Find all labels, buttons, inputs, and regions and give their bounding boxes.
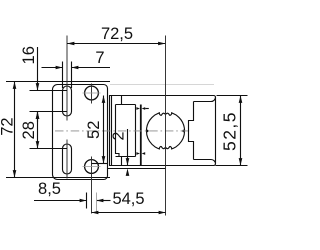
step lower — [116, 157, 136, 166]
svg-text:72: 72 — [0, 117, 17, 135]
dim 16 lower arrow — [36, 112, 40, 119]
ring dashed horizontal centerline — [55, 130, 190, 132]
lower hole — [85, 160, 99, 174]
dim 2 upper gap arrows — [136, 107, 140, 110]
dim 72,5 right arrow — [158, 42, 165, 46]
svg-text:52: 52 — [85, 121, 103, 139]
lower hole centerlines — [91, 157, 93, 214]
dim 54,5 right arrow — [159, 211, 166, 214]
body inner step line lower right — [194, 159, 216, 163]
dim 2 leader line — [127, 129, 129, 166]
lower slot centerline — [66, 140, 68, 179]
dim 54,5 line — [92, 212, 166, 214]
dim 16 upper arrow — [36, 83, 40, 90]
dim 16 extension lines — [30, 90, 68, 92]
ring bottom ears — [159, 146, 172, 148]
dim 8,5 left tail — [34, 200, 87, 202]
step upper — [116, 96, 136, 105]
bracket flange edge-on verticals — [109, 96, 111, 166]
dim 52,5 line — [240, 96, 242, 166]
ring west dot — [146, 130, 149, 133]
dim 8,5 light extension — [96, 193, 98, 214]
svg-text:72,5: 72,5 — [101, 25, 133, 43]
dim 52 line — [103, 96, 105, 164]
svg-text:8,5: 8,5 — [38, 180, 61, 198]
dim 52 top arrow — [102, 96, 106, 103]
dim 52,5 top ext — [217, 95, 248, 97]
dim 28 bottom arrow — [36, 141, 40, 148]
svg-text:2: 2 — [110, 132, 127, 141]
middle body outline: top edge, right edge, bottom edge — [109, 96, 216, 166]
lower slot — [63, 144, 72, 174]
ring bottom gap cover — [160, 148, 171, 152]
dim 7 extension lines — [62, 62, 64, 89]
upper slot — [63, 86, 72, 116]
dim 52,5 top arrow — [239, 96, 243, 103]
svg-text:54,5: 54,5 — [112, 190, 144, 208]
dim 28 line — [37, 112, 39, 149]
main vertical centerline right — [165, 36, 167, 216]
upper hole — [85, 86, 99, 100]
dim 16 lower tail — [37, 112, 39, 123]
dim 7 line right tail — [72, 67, 111, 69]
svg-text:7: 7 — [95, 49, 104, 67]
dim 7 left arrow — [56, 66, 63, 69]
dim 2 down arrow — [126, 158, 130, 165]
clamp strap sheet edge-on — [140, 105, 142, 167]
dim 54,5 left arrow — [92, 211, 99, 214]
rear flange bottom edge + dim72 bottom extension — [6, 177, 110, 179]
dim 16 upper tail — [37, 47, 39, 91]
dim 28 extension line — [30, 148, 68, 150]
dim 2 lower gap arrows — [136, 152, 140, 155]
dim 52 bottom arrow — [102, 156, 106, 163]
upper hole centerlines — [91, 84, 93, 104]
dim 52,5 bottom arrow — [239, 158, 243, 165]
upper slot centerline — [66, 36, 68, 121]
bracket vertical leg rectangle with bottom-left notch — [116, 105, 136, 157]
dim 52 bottom extension line — [92, 163, 108, 165]
bracket plate outline — [53, 85, 108, 180]
rear flange top edge + dim72 top extension — [6, 81, 110, 83]
dim 72 top arrow — [13, 82, 17, 89]
svg-text:52,5: 52,5 — [219, 111, 239, 151]
dim 8,5 extension — [86, 193, 88, 209]
ring east dot — [182, 130, 185, 133]
bottom edge extension for 52,5 — [216, 165, 248, 167]
svg-text:28: 28 — [20, 121, 38, 139]
dim 72 line — [14, 82, 16, 178]
ring top ears — [159, 113, 172, 115]
body left notch — [189, 102, 194, 160]
svg-text:16: 16 — [20, 46, 38, 64]
dim 7 right arrow — [72, 66, 79, 69]
faint surface line top right — [110, 84, 214, 86]
dim 8,5 left arrow — [80, 199, 87, 202]
dim 28 top arrow — [36, 112, 40, 119]
clamp ring — [146, 112, 184, 150]
rail surface line below body — [108, 168, 167, 170]
dim 8,5 right tail — [97, 200, 111, 202]
body inner step line upper right — [194, 97, 216, 101]
ring top gap cover — [160, 110, 171, 114]
dim 7 line left tail — [42, 67, 63, 69]
dim 72,5 left arrow — [67, 42, 74, 46]
dim 8,5 right arrow — [97, 199, 104, 202]
dim 72,5 line — [67, 43, 166, 45]
dim 72 bottom arrow — [13, 170, 17, 177]
dim 2 up arrow below — [126, 169, 130, 176]
